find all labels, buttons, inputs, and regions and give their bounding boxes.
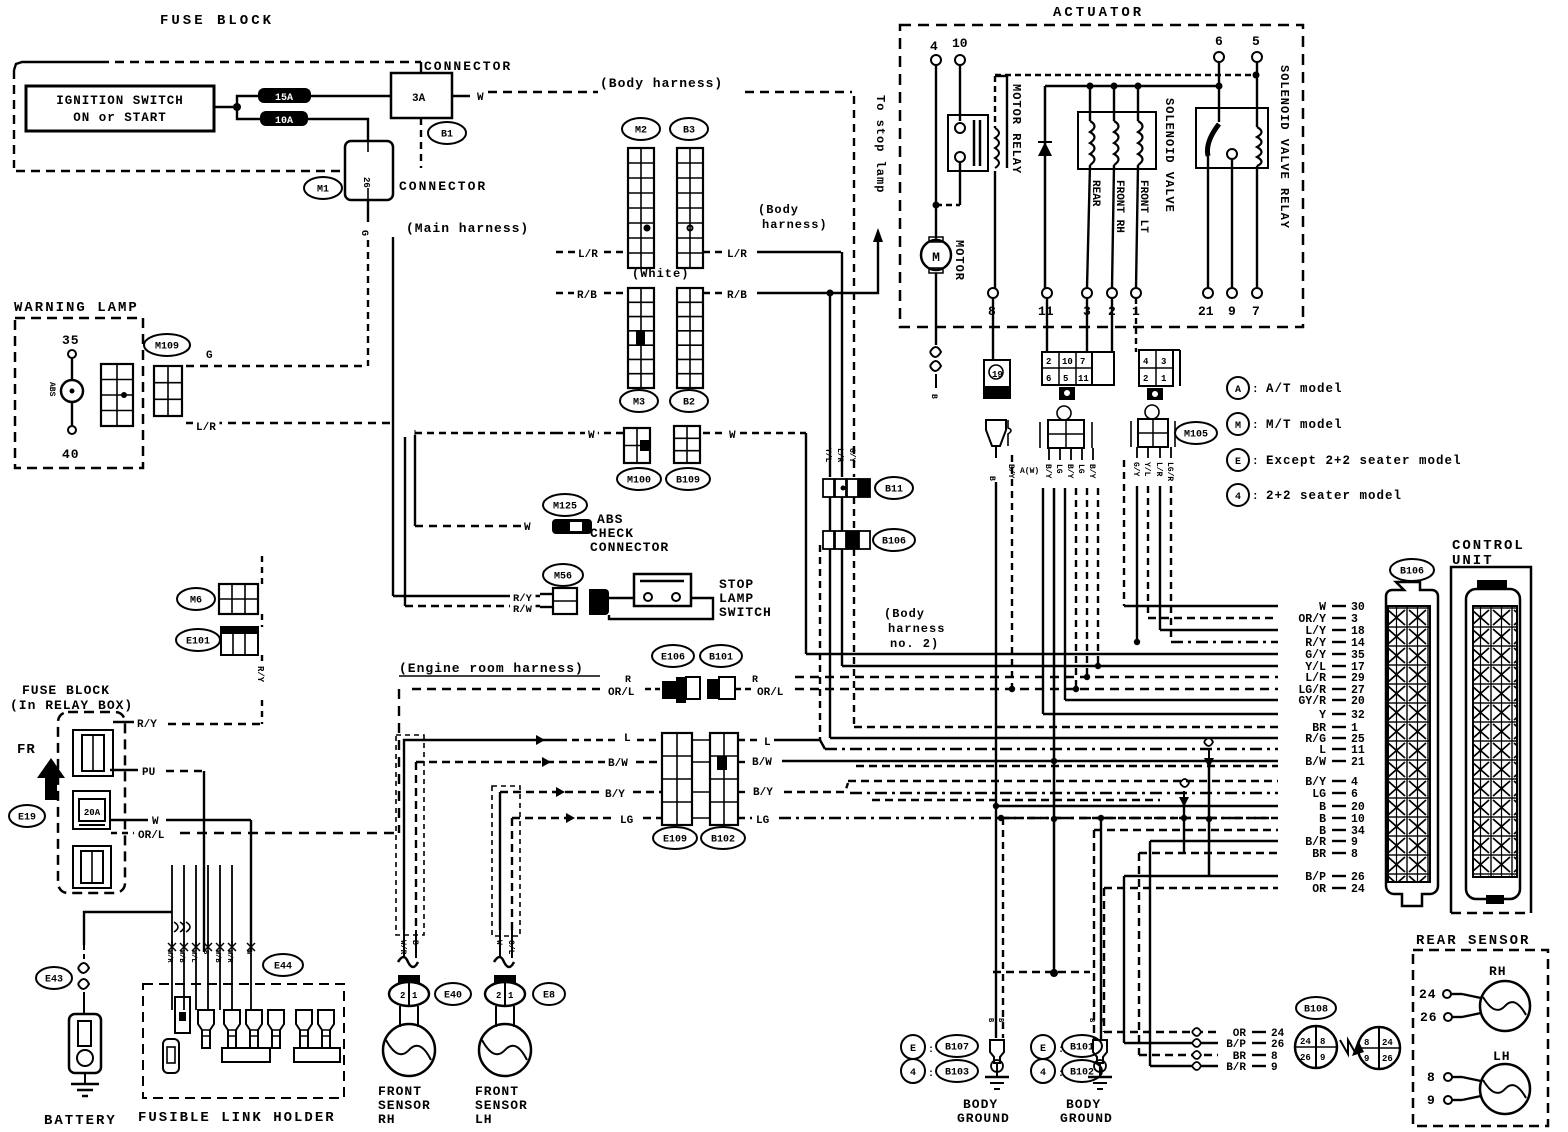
svg-text:A/T model: A/T model — [1266, 382, 1343, 396]
junction — [1009, 686, 1015, 692]
pin circle 5 — [1252, 52, 1262, 62]
svg-text:FUSE BLOCK: FUSE BLOCK — [22, 683, 110, 698]
pin circle 40 — [68, 426, 76, 434]
wire to fuse 10A — [237, 107, 261, 119]
wire fusible feed 5 — [219, 865, 221, 947]
wire fusible feed 7 — [250, 865, 252, 947]
pin circle 11 — [1042, 288, 1052, 298]
svg-text:24: 24 — [1351, 883, 1365, 896]
connector arrows — [1340, 1040, 1364, 1056]
pin circle 2 — [1107, 288, 1117, 298]
relay contact — [1227, 149, 1237, 159]
connector M3 — [620, 390, 658, 412]
svg-text:OR/L: OR/L — [608, 687, 635, 699]
connector B1 — [428, 122, 466, 144]
connector group1 plug — [986, 420, 1011, 458]
connector box M/B — [391, 73, 452, 118]
connector box 2 — [345, 141, 393, 200]
stop lamp connector — [553, 588, 577, 614]
svg-text:L: L — [764, 737, 771, 749]
svg-text:RH: RH — [1489, 964, 1507, 979]
connector M125 — [543, 494, 587, 516]
stop lamp switch loop — [609, 598, 713, 619]
wire motor to ground below box — [935, 273, 937, 345]
svg-text:B106: B106 — [1400, 567, 1424, 578]
svg-text:M: M — [1235, 421, 1241, 432]
svg-text:E43: E43 — [45, 975, 63, 986]
svg-text:9: 9 — [1320, 1053, 1325, 1063]
connector B109 label — [666, 468, 710, 490]
wire BR to control unit pin 8 — [1139, 852, 1278, 854]
wire L jog — [774, 740, 825, 749]
svg-text:E: E — [1040, 1044, 1046, 1055]
svg-text:B102: B102 — [1070, 1068, 1094, 1079]
actuator dashed box — [900, 25, 1303, 327]
wire L — [404, 740, 560, 742]
connector grid M3 — [628, 288, 654, 388]
wire group2 to GY/R 20 — [1064, 488, 1066, 700]
wire relay contact down — [959, 162, 961, 205]
svg-text:R: R — [625, 675, 631, 686]
svg-text:MOTOR: MOTOR — [952, 240, 966, 281]
legend circle 4 ground2 — [1031, 1059, 1055, 1083]
legend circle 4 ground1 — [901, 1059, 925, 1083]
wire GY/R to control unit pin 20 — [1065, 699, 1278, 701]
wire W to ABS check — [415, 525, 530, 527]
svg-text:SOLENOID VALVE RELAY: SOLENOID VALVE RELAY — [1277, 65, 1291, 229]
svg-text:B/Y: B/Y — [1087, 464, 1096, 479]
connector grid B2 — [677, 288, 703, 388]
svg-text:3A: 3A — [412, 93, 426, 105]
stop lamp plug — [589, 589, 609, 615]
svg-text::: : — [928, 1045, 934, 1056]
svg-text:3: 3 — [1161, 357, 1166, 367]
FR arrow — [37, 758, 65, 800]
wire curl — [1192, 1039, 1201, 1047]
relay coil bracket — [1006, 76, 1008, 168]
wire fusible feed 4 — [207, 865, 209, 947]
wire arrow — [566, 813, 575, 823]
wire L/Y to control unit pin 18 — [1160, 629, 1278, 631]
svg-text:ON or START: ON or START — [73, 111, 167, 125]
connector E106 — [652, 645, 694, 667]
junction — [1051, 758, 1057, 764]
svg-text:OR/L: OR/L — [757, 687, 784, 699]
wire OR/L vertical — [398, 689, 400, 833]
body ground 1 — [985, 1040, 1009, 1089]
motor relay — [948, 115, 988, 171]
wire OR/L to control unit LG/R 27 — [795, 688, 1278, 690]
wire pin3 down — [1086, 298, 1088, 352]
wire R/Y dashed to fuse block — [261, 700, 263, 724]
wire curl — [1192, 1062, 1201, 1070]
battery — [69, 1014, 101, 1073]
svg-text:L/R: L/R — [1154, 462, 1163, 477]
link plate 2 — [294, 1048, 340, 1062]
wire BR down — [1138, 853, 1140, 1055]
front sensor LH connector — [485, 975, 525, 1006]
wire OR to connector — [1104, 1031, 1218, 1033]
svg-text:B/Y: B/Y — [1006, 464, 1015, 479]
wire to BR 1 row — [853, 549, 855, 727]
svg-text:E101: E101 — [186, 637, 210, 648]
svg-text:L/R: L/R — [727, 249, 747, 261]
connector M2 — [622, 118, 660, 140]
wire arrow — [542, 757, 551, 767]
svg-text:BODY: BODY — [1066, 1097, 1101, 1112]
junction — [233, 103, 241, 111]
svg-text:R/B: R/B — [727, 290, 747, 302]
connector E106 plug — [662, 677, 700, 703]
svg-text:M100: M100 — [627, 476, 651, 487]
warning lamp bulb — [61, 380, 83, 402]
control unit box — [1451, 567, 1531, 913]
motor relay coil — [995, 128, 999, 168]
svg-text:B101: B101 — [1070, 1043, 1094, 1054]
wire group1 dashed to LG/R row — [1011, 455, 1013, 689]
svg-text:Except 2+2 seater model: Except 2+2 seater model — [1266, 454, 1462, 468]
connector M105 — [1175, 422, 1217, 444]
connector group2 top — [1042, 352, 1114, 385]
svg-text:W: W — [152, 816, 159, 828]
svg-text:W/R: W/R — [398, 940, 407, 955]
fuse block corner — [14, 62, 100, 70]
svg-text:LH: LH — [1493, 1049, 1511, 1064]
svg-text:(Main harness): (Main harness) — [406, 221, 529, 236]
front sensor LH harness dashed outline — [492, 786, 520, 936]
legend circle E ground2 — [1031, 1035, 1055, 1059]
pin circle 4 — [931, 55, 941, 65]
solenoid relay coil — [1257, 127, 1262, 166]
svg-text:W/L: W/L — [189, 950, 197, 963]
svg-text:B107: B107 — [945, 1043, 969, 1054]
wire group2 to LG/R 27 — [1075, 488, 1077, 689]
fusible link — [268, 1010, 284, 1048]
fusible link small — [163, 1039, 179, 1073]
junction — [1095, 663, 1101, 669]
svg-text:GY/R: GY/R — [1298, 695, 1326, 708]
wire to pin 9 — [1231, 159, 1233, 288]
wire G/Y to control unit pin 35 — [806, 653, 1278, 655]
svg-text:2: 2 — [1046, 357, 1051, 367]
front sensor RH — [383, 1006, 435, 1076]
svg-text:4: 4 — [930, 39, 938, 54]
fuse 15A — [258, 88, 311, 104]
svg-text:W/R: W/R — [165, 950, 173, 963]
svg-text:21: 21 — [1198, 304, 1214, 319]
fuse element 3 — [73, 846, 111, 888]
svg-text:E40: E40 — [444, 991, 462, 1002]
wire G dashed — [186, 365, 368, 367]
svg-text:8: 8 — [1427, 1070, 1436, 1085]
fusible link holder dashed box — [143, 984, 344, 1098]
solenoid coil — [1090, 121, 1095, 165]
wire front sensor LH 1 — [499, 792, 501, 930]
wire B/Y dashed — [500, 791, 602, 793]
wire B/W to control unit 21 — [782, 760, 1278, 762]
svg-text:M125: M125 — [553, 502, 577, 513]
svg-text:24: 24 — [1382, 1038, 1393, 1048]
svg-text:B: B — [987, 476, 996, 481]
wire fusible feed 2 — [183, 865, 185, 947]
connector E44 — [263, 954, 303, 976]
svg-text:8: 8 — [1320, 1037, 1325, 1047]
wire R/B vertical down — [829, 293, 831, 477]
wire pin6 down — [1218, 62, 1220, 86]
connector B106 label horizontal — [873, 529, 915, 551]
wire B to control unit pin 10 — [1001, 817, 1278, 819]
wire group3 to OR/Y 3 — [1147, 486, 1149, 618]
svg-text:B103: B103 — [945, 1068, 969, 1079]
svg-text:W: W — [477, 92, 484, 104]
svg-text:W: W — [524, 522, 531, 534]
motor ground pigtail — [930, 347, 941, 388]
svg-text:A: A — [1235, 385, 1241, 396]
svg-text:B/W: B/W — [1305, 756, 1326, 769]
connector M100 label — [617, 468, 661, 490]
wire B/P to control unit pin 26 — [1124, 875, 1278, 877]
pin circle 1 — [1131, 288, 1141, 298]
junction — [1084, 674, 1090, 680]
svg-text:6: 6 — [1215, 34, 1223, 49]
main harness boundary vertical — [392, 237, 394, 596]
svg-text:harness: harness — [888, 622, 945, 636]
wire R/B to stop lamp branch — [757, 292, 860, 294]
dashed wire G vertical — [367, 240, 369, 366]
junction — [1073, 686, 1079, 692]
svg-text:OR/L: OR/L — [138, 830, 165, 842]
svg-text:40: 40 — [62, 447, 80, 462]
wire PU out — [110, 769, 138, 771]
svg-text:M105: M105 — [1184, 430, 1208, 441]
svg-text:BODY: BODY — [963, 1097, 998, 1112]
connector B107 — [936, 1035, 978, 1057]
connector E43 — [36, 967, 72, 989]
wire pin2 down — [1111, 298, 1113, 352]
svg-text:E106: E106 — [661, 653, 685, 664]
svg-text:1: 1 — [412, 991, 418, 1001]
connector B109 — [674, 426, 700, 463]
legend circle A — [1227, 377, 1249, 399]
connector E101 — [176, 629, 220, 651]
wire OR/L out — [111, 832, 134, 834]
wire BR to connector — [1139, 1054, 1218, 1056]
svg-text:5: 5 — [1252, 34, 1260, 49]
ignition switch box — [26, 86, 214, 131]
wire group2 to L/R 29 — [1086, 488, 1088, 677]
connector B3 — [670, 118, 708, 140]
svg-text:20A: 20A — [84, 808, 101, 818]
svg-text:4: 4 — [910, 1068, 916, 1079]
connector grid E109 — [662, 733, 692, 825]
connector grid M109 — [154, 366, 182, 416]
wire B/Y jog — [784, 783, 848, 792]
wire ground1 b — [1002, 818, 1004, 1038]
wire curl — [1192, 1028, 1201, 1036]
svg-text:4: 4 — [1143, 357, 1149, 367]
svg-text:Y/L: Y/L — [1142, 462, 1151, 477]
svg-text:B/Y: B/Y — [753, 787, 773, 799]
wire LG long dash-dot — [779, 817, 1278, 819]
rear sensor dashed box — [1413, 950, 1548, 1126]
wire B/P down — [1123, 876, 1125, 1043]
wire to BR 8 row — [1183, 803, 1185, 853]
wire OR/L long dashed — [180, 832, 399, 834]
wire battery to fusible links — [84, 912, 172, 945]
svg-text:BATTERY: BATTERY — [44, 1113, 117, 1129]
svg-text:E: E — [1235, 457, 1241, 468]
junction — [1134, 639, 1140, 645]
round connector 2 — [1358, 1027, 1400, 1069]
svg-text:B3: B3 — [683, 126, 695, 137]
svg-text:GROUND: GROUND — [1060, 1111, 1113, 1126]
svg-text:L: L — [624, 733, 631, 745]
svg-text:Y: Y — [1319, 709, 1326, 722]
svg-text:E109: E109 — [663, 835, 687, 846]
svg-text:L/R: L/R — [578, 249, 598, 261]
svg-text:26: 26 — [361, 177, 371, 188]
wire to fuse 15A — [237, 96, 259, 107]
svg-text:6: 6 — [1351, 788, 1358, 801]
connector B106 label — [1390, 559, 1434, 581]
junction — [1051, 816, 1057, 822]
junction — [1098, 815, 1104, 821]
junction — [1253, 72, 1260, 79]
pin circle 21 — [1203, 288, 1213, 298]
wire band filler dashed — [856, 765, 1278, 767]
svg-text:B101: B101 — [709, 653, 733, 664]
wire group3 to R/Y 14 — [1170, 486, 1172, 642]
svg-text:B/W: B/W — [752, 757, 772, 769]
svg-text:W/R: W/R — [225, 950, 233, 963]
wire ground1 a — [995, 806, 997, 1038]
connector M109 — [144, 334, 190, 356]
svg-text:B1: B1 — [441, 130, 453, 141]
wire to W 30 row — [1123, 460, 1125, 606]
legend circle M — [1227, 413, 1249, 435]
connector B103 — [936, 1060, 978, 1082]
wire group2 to Y/L 17 — [1097, 488, 1099, 666]
svg-text:no. 2): no. 2) — [890, 637, 939, 651]
wire fusible feed 6 — [231, 865, 233, 947]
wire to pin 21 — [1207, 156, 1209, 288]
pin circle 7 — [1252, 288, 1262, 298]
connector grid M6 — [219, 584, 258, 614]
svg-text:B/Y: B/Y — [1065, 464, 1074, 479]
svg-text:RH: RH — [378, 1112, 396, 1127]
rear sensor LH — [1480, 1064, 1530, 1114]
svg-text:10: 10 — [1062, 357, 1073, 367]
svg-text:2: 2 — [400, 991, 405, 1001]
svg-text:1: 1 — [508, 991, 514, 1001]
round connector 1 — [1295, 1026, 1337, 1068]
svg-text:B2: B2 — [683, 398, 695, 409]
svg-text:7: 7 — [1252, 304, 1260, 319]
svg-text::: : — [1252, 384, 1259, 396]
svg-text:W: W — [588, 430, 595, 442]
wire B/R to control unit pin 9 — [1150, 840, 1278, 842]
connector group3 top — [1139, 350, 1180, 386]
wire R/Y dashed — [168, 723, 262, 725]
wire B/Y to control unit 4 — [848, 780, 1278, 782]
svg-text:FUSE BLOCK: FUSE BLOCK — [160, 13, 274, 29]
svg-text:21: 21 — [1351, 756, 1365, 769]
wire R/W dashed — [405, 605, 540, 607]
svg-text::: : — [928, 1069, 934, 1080]
wire B to control unit pin 20 — [993, 805, 1278, 807]
fusible link — [318, 1010, 334, 1048]
connector B11 label — [875, 477, 913, 499]
svg-text:MOTOR RELAY: MOTOR RELAY — [1009, 84, 1023, 174]
svg-text:Y/L: Y/L — [823, 448, 832, 463]
svg-text:OR: OR — [1312, 883, 1326, 896]
wire group3 to L/Y 18 — [1159, 486, 1161, 630]
junction star — [247, 941, 255, 953]
svg-text:CONNECTOR: CONNECTOR — [399, 179, 487, 194]
svg-text:LG/R: LG/R — [1165, 462, 1174, 481]
wire to body ground 2b — [1100, 818, 1102, 1040]
wire L/R vertical down — [841, 252, 843, 477]
wire arrow — [556, 787, 565, 797]
wire fuse to connector 2 — [308, 119, 368, 141]
wire front sensor RH 1 — [403, 742, 405, 930]
svg-text:B: B — [929, 394, 938, 399]
fusible link — [198, 1010, 214, 1048]
junction motor — [933, 202, 940, 209]
connector group3 mid — [1131, 405, 1175, 447]
wire pin8 down — [992, 298, 994, 360]
svg-text:M: M — [932, 250, 940, 265]
fusible link — [224, 1010, 240, 1048]
fuse block relay box outline — [58, 712, 125, 893]
svg-text:REAR SENSOR: REAR SENSOR — [1416, 933, 1530, 949]
connector B106 tall — [1386, 582, 1438, 906]
harness crossing marks — [174, 922, 190, 932]
pin circle 9 — [1227, 288, 1237, 298]
svg-text:R/B: R/B — [577, 290, 597, 302]
svg-text:harness): harness) — [762, 218, 828, 232]
wire L/R dashed — [186, 422, 393, 424]
svg-text:M6: M6 — [190, 596, 202, 607]
svg-text:B: B — [410, 940, 419, 945]
connector M1 — [304, 177, 342, 199]
junction — [1181, 815, 1187, 821]
svg-text:9: 9 — [1427, 1093, 1436, 1108]
svg-text:CONNECTOR: CONNECTOR — [590, 540, 669, 555]
solenoid valve box — [1078, 112, 1156, 169]
wire B/R to connector — [1150, 1065, 1218, 1067]
wire L/R to control unit pin 29 — [795, 676, 1278, 678]
wire LG to control unit 6 — [850, 792, 1278, 794]
svg-text:9: 9 — [1228, 304, 1236, 319]
wire group1 to body ground B 20 — [995, 482, 997, 806]
junction ground link — [1050, 969, 1058, 977]
svg-text:24: 24 — [1419, 987, 1437, 1002]
svg-text:M1: M1 — [317, 185, 329, 196]
harness continuation arrow 1 — [1204, 738, 1214, 768]
svg-text:9: 9 — [1271, 1062, 1278, 1074]
svg-text:L/R: L/R — [196, 422, 216, 434]
wire curl — [1192, 1051, 1201, 1059]
wire OR/Y to control unit pin 3 — [1148, 617, 1278, 619]
connector M56 — [543, 564, 583, 586]
wire OR to control unit pin 24 — [1104, 887, 1278, 889]
wire R/G to control unit pin 25 — [830, 737, 1278, 739]
svg-text:B108: B108 — [1304, 1005, 1328, 1016]
wire G down — [367, 200, 369, 222]
wire to switch — [609, 597, 634, 599]
wire R/Y dashed above M6 — [261, 556, 263, 584]
